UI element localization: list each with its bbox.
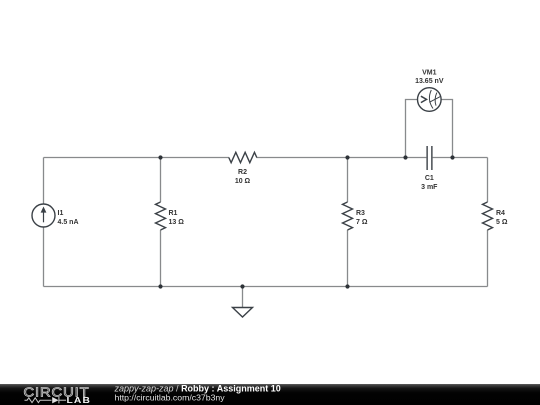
svg-text:R3: R3 [356, 210, 365, 217]
svg-text:7 Ω: 7 Ω [356, 219, 368, 226]
svg-text:http://circuitlab.com/c37b3ny: http://circuitlab.com/c37b3ny [115, 392, 226, 402]
svg-text:13.65 nV: 13.65 nV [415, 78, 444, 85]
svg-text:R4: R4 [496, 210, 505, 217]
svg-text:I1: I1 [58, 210, 64, 217]
svg-text:4.5 nA: 4.5 nA [58, 219, 79, 226]
svg-text:13 Ω: 13 Ω [169, 219, 185, 226]
svg-text:LAB: LAB [67, 396, 92, 405]
svg-text:VM1: VM1 [422, 70, 437, 77]
svg-text:C1: C1 [425, 175, 434, 182]
svg-text:R2: R2 [238, 169, 247, 176]
svg-text:3 mF: 3 mF [421, 184, 438, 191]
svg-text:5 Ω: 5 Ω [496, 219, 508, 226]
svg-text:10 Ω: 10 Ω [235, 178, 251, 185]
svg-text:R1: R1 [169, 210, 178, 217]
